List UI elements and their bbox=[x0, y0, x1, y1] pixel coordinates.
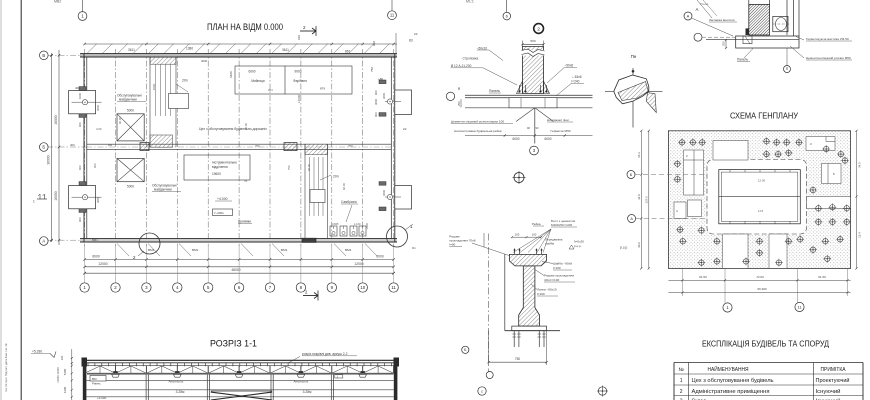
svg-text:3600: 3600 bbox=[382, 92, 386, 99]
svg-text:100: 100 bbox=[515, 233, 520, 237]
svg-text:20п: 20п bbox=[182, 79, 188, 83]
svg-text:+5.280: +5.280 bbox=[32, 350, 42, 354]
svg-text:Інв. № ориг. Підпис і дата: Інв. № ориг. Підпис і дата Зам. інв. № bbox=[4, 343, 8, 392]
svg-text:l=240: l=240 bbox=[572, 80, 580, 84]
svg-text:600: 600 bbox=[374, 112, 378, 117]
svg-text:Існуючий: Існуючий bbox=[816, 388, 841, 395]
svg-text:А: А bbox=[696, 7, 699, 12]
svg-text:Б: Б bbox=[42, 145, 45, 150]
svg-text:12000: 12000 bbox=[354, 262, 363, 266]
svg-text:1: 1 bbox=[81, 14, 84, 19]
svg-text:Самбризія: Самбризія bbox=[341, 200, 357, 204]
svg-text:3600: 3600 bbox=[374, 98, 378, 105]
svg-text:5000: 5000 bbox=[127, 184, 134, 188]
svg-text:750: 750 bbox=[255, 144, 260, 148]
svg-text:Фарбівня: Фарбівня bbox=[293, 79, 307, 83]
svg-text:ВМ: ВМ bbox=[92, 377, 97, 381]
svg-text:Заглавка вентиля: Заглавка вентиля bbox=[709, 18, 735, 22]
svg-text:264: 264 bbox=[268, 88, 273, 92]
svg-text:83: 83 bbox=[409, 39, 413, 43]
svg-text:+4.000: +4.000 bbox=[217, 197, 228, 201]
svg-text:Антресоль: Антресоль bbox=[169, 380, 184, 384]
svg-text:–50х10: –50х10 bbox=[477, 46, 488, 50]
svg-text:Шайба –90х8: Шайба –90х8 bbox=[553, 262, 572, 266]
svg-text:600: 600 bbox=[78, 165, 82, 170]
svg-text:ВМ1: ВМ1 bbox=[92, 238, 98, 242]
svg-text:3611: 3611 bbox=[128, 48, 135, 52]
svg-text:600: 600 bbox=[78, 122, 82, 127]
svg-text:72.00: 72.00 bbox=[756, 275, 764, 279]
svg-text:3600: 3600 bbox=[96, 104, 100, 111]
svg-text:1.100: 1.100 bbox=[354, 222, 361, 226]
svg-text:3.28м: 3.28м bbox=[176, 390, 185, 394]
svg-text:Г-2001: Г-2001 bbox=[215, 211, 225, 215]
svg-text:R1: R1 bbox=[412, 246, 416, 250]
svg-text:250: 250 bbox=[457, 101, 461, 106]
svg-text:Цементно-піщаний розчин марки: Цементно-піщаний розчин марки 100 bbox=[451, 119, 505, 123]
svg-text:4000: 4000 bbox=[201, 59, 208, 63]
svg-text:1: 1 bbox=[680, 378, 683, 384]
svg-text:Ø 12 А-11-200: Ø 12 А-11-200 bbox=[451, 64, 472, 68]
svg-text:400: 400 bbox=[70, 143, 75, 147]
svg-text:К2: К2 bbox=[403, 127, 407, 131]
svg-text:М100х50 l=220: М100х50 l=220 bbox=[551, 223, 573, 227]
svg-text:19600: 19600 bbox=[212, 172, 221, 176]
svg-text:137.6: 137.6 bbox=[644, 196, 648, 204]
svg-text:Герметизуюча мастика УМ-50: Герметизуюча мастика УМ-50 bbox=[806, 37, 849, 41]
svg-text:96.00: 96.00 bbox=[244, 123, 248, 130]
svg-text:61.50: 61.50 bbox=[818, 275, 826, 279]
svg-text:l=160: l=160 bbox=[537, 292, 545, 296]
svg-text:12000 11000: 12000 11000 bbox=[56, 367, 60, 383]
svg-text:Проектуючий: Проектуючий bbox=[816, 377, 850, 384]
svg-text:ПРИМІТКА: ПРИМІТКА bbox=[821, 367, 847, 373]
svg-text:А: А bbox=[687, 13, 690, 18]
svg-text:867: 867 bbox=[345, 50, 351, 54]
svg-text:НАЙМЕНУВАННЯ: НАЙМЕНУВАННЯ bbox=[708, 365, 749, 373]
svg-text:44.0: 44.0 bbox=[637, 194, 641, 200]
svg-text:відділення: відділення bbox=[212, 165, 228, 169]
svg-text:РОЗРІЗ 1-1: РОЗРІЗ 1-1 bbox=[210, 339, 257, 349]
svg-text:6000: 6000 bbox=[92, 255, 100, 259]
svg-text:р.е.р.: р.е.р. bbox=[574, 244, 582, 248]
svg-text:1000: 1000 bbox=[152, 83, 156, 90]
svg-text:6000: 6000 bbox=[544, 137, 551, 141]
svg-text:майданчики: майданчики bbox=[154, 188, 172, 192]
svg-text:96.00: 96.00 bbox=[118, 117, 122, 124]
svg-text:СХЕМА ГЕНПЛАНУ: СХЕМА ГЕНПЛАНУ bbox=[730, 112, 799, 121]
svg-text:20п: 20п bbox=[333, 175, 339, 179]
svg-text:96.300: 96.300 bbox=[757, 287, 767, 291]
svg-text:Пн: Пн bbox=[631, 54, 637, 59]
svg-text:∟63х6: ∟63х6 bbox=[572, 75, 582, 79]
svg-text:12.00: 12.00 bbox=[758, 179, 765, 183]
svg-text:М1:1: М1:1 bbox=[466, 0, 474, 4]
svg-text:+4.000: +4.000 bbox=[97, 396, 107, 400]
svg-text:16000: 16000 bbox=[54, 115, 58, 124]
svg-text:16000: 16000 bbox=[54, 191, 58, 200]
svg-text:40х4 l=100: 40х4 l=100 bbox=[544, 278, 560, 282]
svg-text:400: 400 bbox=[75, 86, 80, 90]
svg-text:Антресоль: Антресоль bbox=[294, 380, 309, 384]
svg-text:№: № bbox=[679, 367, 684, 373]
svg-text:11.5: 11.5 bbox=[758, 209, 764, 213]
svg-text:3.28м: 3.28м bbox=[303, 390, 312, 394]
svg-text:13.4: 13.4 bbox=[857, 232, 861, 238]
svg-text:ВМ1: ВМ1 bbox=[345, 248, 352, 252]
svg-text:1: 1 bbox=[33, 200, 35, 204]
svg-text:96.00: 96.00 bbox=[307, 164, 311, 171]
svg-text:879: 879 bbox=[320, 87, 325, 91]
svg-text:Антисептована будівельна рейка: Антисептована будівельна рейка bbox=[454, 129, 502, 133]
svg-text:90: 90 bbox=[457, 86, 461, 90]
svg-text:9000: 9000 bbox=[294, 70, 301, 74]
svg-text:910: 910 bbox=[297, 35, 301, 40]
svg-text:6000: 6000 bbox=[376, 255, 384, 259]
svg-text:А: А bbox=[42, 239, 45, 244]
svg-text:3600: 3600 bbox=[382, 189, 386, 196]
svg-text:В: В bbox=[42, 53, 45, 58]
svg-text:Строповка: Строповка bbox=[463, 57, 479, 61]
svg-text:5000: 5000 bbox=[127, 109, 134, 113]
svg-text:ВМ: ВМ bbox=[108, 143, 113, 147]
svg-text:750: 750 bbox=[348, 144, 353, 148]
svg-text:розріз покрівлі див. аркуш 2-2: розріз покрівлі див. аркуш 2-2 bbox=[302, 352, 348, 356]
svg-text:250: 250 bbox=[722, 41, 726, 46]
svg-text:ЕКСПЛІКАЦІЯ БУДІВЕЛЬ ТА СПОРУД: ЕКСПЛІКАЦІЯ БУДІВЕЛЬ ТА СПОРУД bbox=[702, 340, 829, 349]
svg-text:Герметик М50: Герметик М50 bbox=[551, 129, 571, 133]
svg-text:5280: 5280 bbox=[63, 368, 67, 375]
svg-text:Адміністративне приміщення: Адміністративне приміщення bbox=[692, 389, 770, 395]
svg-text:1380: 1380 bbox=[186, 47, 193, 51]
svg-text:3611: 3611 bbox=[282, 48, 289, 52]
svg-text:МВ2: МВ2 bbox=[54, 0, 61, 4]
svg-text:2: 2 bbox=[537, 26, 540, 31]
svg-text:2400: 2400 bbox=[365, 222, 369, 229]
svg-text:1000: 1000 bbox=[78, 92, 82, 99]
svg-text:300: 300 bbox=[60, 355, 64, 360]
svg-text:l=90: l=90 bbox=[449, 243, 455, 247]
svg-text:Рівень: Рівень bbox=[92, 382, 101, 386]
svg-text:6000: 6000 bbox=[248, 70, 255, 74]
svg-text:78: 78 bbox=[244, 179, 248, 183]
svg-text:16000: 16000 bbox=[297, 94, 301, 103]
svg-text:–50х6: –50х6 bbox=[565, 64, 574, 68]
svg-text:К3: К3 bbox=[414, 32, 418, 36]
svg-text:ПЛАН НА ВІДМ 0.000: ПЛАН НА ВІДМ 0.000 bbox=[207, 22, 283, 32]
svg-text:61.50: 61.50 bbox=[699, 275, 707, 279]
svg-text:11: 11 bbox=[390, 13, 395, 18]
svg-text:6400: 6400 bbox=[229, 71, 233, 78]
svg-text:48000: 48000 bbox=[231, 268, 240, 272]
svg-text:Лапка –90х10: Лапка –90х10 bbox=[537, 288, 557, 292]
svg-text:ВМ1: ВМ1 bbox=[281, 248, 288, 252]
svg-text:Панель: Панель bbox=[737, 58, 748, 62]
svg-text:с: с bbox=[481, 389, 483, 393]
svg-text:р.з.р.: р.з.р. bbox=[620, 246, 628, 250]
svg-text:600: 600 bbox=[93, 163, 97, 168]
svg-text:ВМ1: ВМ1 bbox=[192, 248, 199, 252]
svg-text:96.00: 96.00 bbox=[342, 183, 346, 190]
svg-text:600: 600 bbox=[78, 217, 82, 222]
svg-text:49.9: 49.9 bbox=[637, 242, 641, 248]
svg-text:Утепл.: Утепл. bbox=[700, 2, 709, 6]
svg-text:Панель: Панель bbox=[489, 89, 500, 93]
svg-text:Мийниця: Мийниця bbox=[251, 79, 265, 83]
svg-text:910: 910 bbox=[372, 41, 376, 46]
svg-text:10: 10 bbox=[360, 285, 365, 290]
svg-text:Цех з обслуговування будівель: Цех з обслуговування будівельно-дорожніх bbox=[199, 127, 267, 131]
svg-text:36.3: 36.3 bbox=[637, 152, 641, 158]
svg-text:750: 750 bbox=[515, 357, 521, 361]
svg-text:12000: 12000 bbox=[98, 262, 107, 266]
svg-text:Приямки: Приямки bbox=[238, 220, 251, 224]
svg-text:l=100: l=100 bbox=[553, 266, 561, 270]
svg-text:Рейка: Рейка bbox=[532, 222, 541, 226]
svg-text:3600: 3600 bbox=[96, 196, 100, 203]
svg-text:11: 11 bbox=[391, 285, 396, 290]
svg-text:500: 500 bbox=[530, 39, 535, 43]
svg-text:2: 2 bbox=[680, 389, 683, 395]
svg-text:Цементно-піщаний розчин М50: Цементно-піщаний розчин М50 bbox=[806, 56, 851, 60]
svg-text:750: 750 bbox=[287, 165, 291, 170]
svg-text:ВМ1: ВМ1 bbox=[148, 248, 155, 252]
svg-text:Рядове прокладення: Рядове прокладення bbox=[544, 274, 574, 278]
svg-text:34.5: 34.5 bbox=[857, 162, 861, 168]
svg-text:Цех з обслуговування будівель: Цех з обслуговування будівель bbox=[692, 378, 774, 384]
svg-text:монтажної піни: монтажної піни bbox=[547, 118, 569, 122]
svg-text:36000: 36000 bbox=[47, 155, 51, 164]
svg-text:0.825: 0.825 bbox=[332, 222, 339, 226]
svg-text:750: 750 bbox=[370, 67, 374, 72]
svg-text:100: 100 bbox=[532, 233, 537, 237]
svg-text:1200: 1200 bbox=[63, 386, 67, 393]
svg-text:майданчики: майданчики bbox=[119, 98, 137, 102]
svg-text:6000: 6000 bbox=[512, 137, 519, 141]
svg-text:600: 600 bbox=[374, 90, 378, 95]
svg-text:δ=5х30: δ=5х30 bbox=[574, 240, 584, 244]
svg-text:Інструментальне: Інструментальне bbox=[212, 161, 237, 165]
svg-text:4.00: 4.00 bbox=[96, 127, 102, 131]
